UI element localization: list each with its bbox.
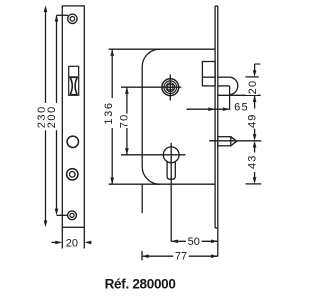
follower core hatch <box>165 82 176 93</box>
49 up arrow <box>253 95 257 102</box>
ring hole B outer <box>68 211 77 220</box>
77 left arrow <box>142 254 149 258</box>
43 down arrow <box>253 177 257 184</box>
svg-text:70: 70 <box>119 114 131 129</box>
label 65 <box>233 101 250 114</box>
cylinder axis line <box>121 154 186 156</box>
dim 230 line <box>45 8 47 103</box>
dim 77 line <box>142 255 218 257</box>
body left edge extension below <box>141 184 143 213</box>
dim 136 line <box>111 49 113 98</box>
hole circle middle <box>67 136 78 147</box>
screw hole top outer <box>68 14 77 23</box>
svg-text:50: 50 <box>188 236 200 248</box>
200 bottom <box>55 209 59 216</box>
label 70 <box>117 114 130 129</box>
dim col line segs <box>254 64 256 74</box>
70 bottom <box>125 148 129 155</box>
faceplate edge top cap <box>215 5 218 7</box>
svg-text:20: 20 <box>247 80 259 95</box>
dim 200 bottom connector <box>57 214 68 216</box>
49 down arrow <box>253 134 257 141</box>
43 up arrow <box>253 141 257 148</box>
ring hole B inner <box>70 213 74 217</box>
latch inner block divider <box>202 76 215 78</box>
65 arrow at latch ext <box>223 107 230 111</box>
label 136 <box>102 100 115 127</box>
extension 136 top <box>109 48 160 50</box>
dim 43 bottom tick <box>246 183 262 185</box>
svg-text:43: 43 <box>246 154 258 169</box>
label 20 latch <box>246 79 259 95</box>
latch head bulge <box>230 77 238 94</box>
latch bevel vertical + 65 extension <box>229 86 231 110</box>
svg-text:200: 200 <box>46 105 58 128</box>
ring hole A inner <box>70 172 76 178</box>
dim 70 line <box>126 87 128 113</box>
faceplate edge extension tick right <box>83 227 85 248</box>
dim 20 plate arrows lines <box>52 241 60 243</box>
cylinder narrow body <box>167 162 175 180</box>
deadbolt cone <box>231 137 237 146</box>
follower axis line <box>121 86 181 88</box>
svg-text:136: 136 <box>103 101 115 124</box>
faceplate edge extension tick left <box>61 227 63 248</box>
svg-text:20: 20 <box>66 238 78 250</box>
latch head bottom + ext <box>218 94 261 96</box>
faceplate front view outline <box>62 6 84 227</box>
77 right arrow <box>211 254 218 258</box>
20 plate right <box>85 241 92 245</box>
50 right arrow <box>211 240 218 244</box>
label 43 <box>245 154 258 170</box>
230 bottom <box>44 221 48 228</box>
136 top <box>110 49 114 56</box>
faceplate edge view left line <box>214 6 216 228</box>
latch window rect <box>69 66 79 95</box>
follower vertical crosshair <box>169 75 171 101</box>
lock body outline <box>142 49 215 184</box>
arrowheads <box>44 5 257 258</box>
dim 77 left tick <box>141 251 143 260</box>
extension 136 bottom <box>109 183 160 185</box>
deadbolt body <box>218 137 231 146</box>
label 230 <box>35 103 48 130</box>
latch window divider <box>69 76 79 78</box>
latch bolt front (bowtie) <box>70 77 78 94</box>
230 top <box>44 5 48 12</box>
20 latch down arrow <box>253 70 257 77</box>
200 top <box>55 15 59 22</box>
70 top <box>125 87 129 94</box>
svg-text:77: 77 <box>175 251 187 263</box>
cylinder circle <box>163 147 179 163</box>
136 bottom <box>110 178 114 185</box>
screw hole top inner <box>70 17 75 22</box>
20 plate left <box>55 241 62 245</box>
dim 200 line <box>56 15 58 103</box>
50 left arrow <box>171 240 178 244</box>
dim 65 line <box>187 108 230 110</box>
label 20 plate <box>66 238 78 250</box>
dim 50 line <box>171 240 218 242</box>
label 77 <box>173 250 189 263</box>
label 49 <box>245 113 258 129</box>
latch inner block <box>202 62 215 86</box>
latch head top <box>218 76 231 78</box>
svg-text:65: 65 <box>234 101 249 113</box>
dim 200 top connector <box>57 14 69 16</box>
latch bevel middle line <box>218 85 230 87</box>
dim 20 latch top tick <box>255 63 261 65</box>
label 200 <box>45 103 58 130</box>
cylinder vertical crosshair / extension to 50 <box>170 143 172 242</box>
svg-text:Réf. 280000: Réf. 280000 <box>105 276 176 291</box>
dim 20 latch top ext <box>246 76 259 78</box>
deadbolt axis <box>209 140 261 142</box>
follower rings <box>162 79 179 96</box>
faceplate edge view right line <box>217 6 219 256</box>
svg-text:49: 49 <box>246 113 258 128</box>
faceplate edge jog <box>215 227 218 229</box>
65 arrow at faceplate <box>208 107 215 111</box>
label 50 <box>186 236 202 249</box>
ring hole A outer <box>67 169 78 180</box>
